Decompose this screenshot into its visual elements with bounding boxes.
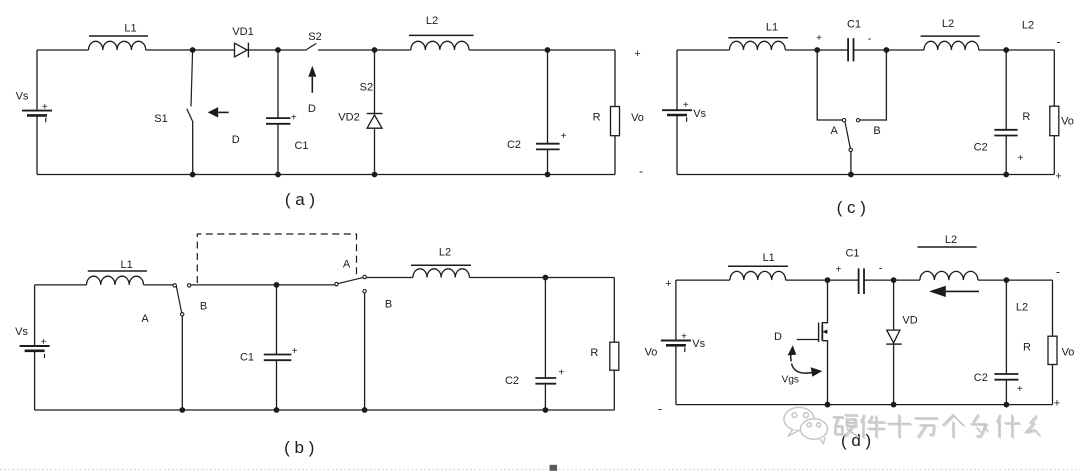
watermark char 7 (1026, 416, 1040, 436)
svg-text:C1: C1 (240, 351, 254, 363)
MOSFET Q (d): gate bar (818, 323, 820, 343)
svg-text:L2: L2 (942, 18, 954, 30)
svg-text:R: R (1022, 111, 1030, 123)
arrow D (a, S2 direction) (311, 77, 313, 93)
svg-text:+: + (1055, 171, 1061, 183)
diode VD2 (a) with label S2 (374, 50, 376, 114)
svg-text:C2: C2 (505, 375, 519, 387)
svg-text:VD2: VD2 (338, 111, 359, 123)
svg-text:-: - (1056, 265, 1060, 279)
switch blade and pole (c) (845, 122, 850, 148)
inductor L2 (d) (920, 271, 978, 280)
svg-text:A: A (831, 125, 839, 137)
node (a) top of C2 (545, 47, 551, 53)
wire: (c) bottom rail (677, 174, 1054, 176)
inductor L2 (c) (924, 41, 979, 50)
inductor L2 (a) (411, 41, 469, 50)
throw B contact (b) right switch with leg (363, 290, 366, 293)
arrow up (d gate annotation) (791, 350, 792, 362)
capacitor C2 (c) (1005, 50, 1007, 130)
svg-text:Vgs: Vgs (782, 375, 799, 386)
svg-text:R: R (593, 112, 601, 124)
svg-text:B: B (385, 299, 392, 311)
wire: (a) left leg (36, 50, 38, 111)
battery Vs (c) (662, 109, 692, 111)
MOSFET Q (d): drain lead (822, 280, 827, 324)
wire: (b) top rail right of switch2 (366, 277, 413, 279)
arrow D (a, S1 direction) (218, 111, 229, 113)
dashed link between switches (b) (197, 234, 356, 283)
wire: (c) left leg (676, 50, 678, 110)
bottom dotted divider (0, 469, 1080, 471)
resistor R (b) (610, 342, 619, 370)
svg-text:S1: S1 (154, 113, 167, 125)
capacitor C2 (b) (544, 278, 546, 379)
svg-text:C2: C2 (507, 139, 521, 151)
svg-text:-: - (1057, 35, 1061, 49)
node (a) bottom junctions (190, 172, 196, 178)
wire: (a) bottom rail (37, 174, 615, 176)
svg-text:L1: L1 (766, 22, 778, 34)
svg-text:D: D (232, 134, 240, 146)
node (c) left of C1 (814, 47, 820, 53)
wire: (b) bottom rail (35, 409, 615, 411)
wire: (a) top rail segments (37, 49, 89, 51)
watermark char 0 (833, 415, 858, 437)
svg-text:Vo: Vo (631, 112, 644, 124)
svg-text:L1: L1 (120, 259, 132, 271)
svg-text:+: + (42, 102, 48, 113)
battery Vs (b) (20, 345, 50, 347)
svg-text:( d ): ( d ) (841, 431, 871, 450)
node (d) bottom junctions (825, 402, 831, 408)
svg-text:A: A (343, 259, 351, 271)
svg-text:+: + (1054, 398, 1060, 410)
svg-text:-: - (658, 402, 662, 416)
svg-text:+: + (683, 100, 689, 111)
wire: (a) right leg (614, 50, 616, 107)
wire: (b) top rail B-to-C1 (191, 284, 277, 286)
svg-text:C2: C2 (974, 372, 988, 384)
wire: (c) right leg (1053, 50, 1055, 106)
capacitor C1 (d) (858, 268, 860, 294)
node (d) drain junction (825, 277, 831, 283)
svg-text:-: - (868, 33, 872, 45)
capacitor C1 (c) (847, 38, 849, 61)
inductor L2 (b) (413, 269, 470, 278)
svg-text:+: + (665, 278, 671, 290)
wire: (b) top rail left of switch1 (35, 284, 87, 286)
svg-text:Vs: Vs (693, 108, 706, 120)
svg-text:Vo: Vo (1061, 116, 1074, 128)
resistor R (c) (1050, 106, 1059, 136)
svg-text:+: + (816, 33, 822, 44)
svg-text:+: + (561, 131, 567, 142)
svg-text:-: - (639, 164, 643, 178)
svg-text:B: B (200, 301, 207, 313)
slider handle square (550, 465, 558, 471)
node (b) bottom junctions (179, 407, 185, 413)
MOSFET Q (d): source lead (822, 341, 827, 405)
switch 2 (b): pole and blade to A (338, 278, 363, 284)
svg-text:B: B (873, 125, 880, 137)
diode VD (d) (893, 280, 895, 330)
arrow current direction (d) (946, 290, 979, 292)
node (d) top of C2 (1004, 277, 1010, 283)
svg-text:Vo: Vo (1062, 347, 1075, 359)
svg-text:A: A (141, 313, 149, 325)
inductor L1 (d) (730, 271, 786, 280)
svg-text:-: - (879, 262, 883, 274)
switch bracket (c): right arm to contact B (860, 50, 887, 120)
wire: (c) top rail segments (677, 49, 730, 51)
svg-text:L2: L2 (945, 234, 957, 246)
switch S2 (a) (307, 43, 317, 49)
watermark logo (chat bubbles) (784, 407, 828, 443)
watermark text 硬件十万个为什么 (833, 415, 1040, 438)
svg-text:+: + (291, 112, 297, 123)
battery Vs (d) (661, 340, 691, 342)
svg-text:L2: L2 (1022, 20, 1034, 32)
capacitor C1 (a) (277, 50, 279, 118)
MOSFET Q (d): channel bar (821, 325, 823, 341)
svg-text:+: + (41, 337, 47, 348)
svg-text:L2: L2 (1016, 302, 1028, 314)
inductor L1 (c) (730, 41, 786, 50)
node (a) top of S1 (190, 47, 196, 53)
node (c) right of C1 (884, 47, 890, 53)
circuit (d) (658, 234, 1074, 450)
watermark char 2 (888, 415, 911, 438)
svg-text:L2: L2 (439, 246, 451, 258)
MOSFET Q (d): gate lead (797, 339, 819, 341)
node (a) top of C1 (275, 47, 281, 53)
capacitor C1 (b) (276, 285, 278, 355)
svg-text:+: + (1017, 384, 1023, 395)
svg-text:+: + (634, 48, 640, 60)
battery Vs (a) (22, 110, 52, 112)
capacitor C2 (d) (1005, 280, 1007, 374)
inductor L1 (a) (89, 41, 146, 50)
svg-text:R: R (1023, 342, 1031, 354)
svg-text:C2: C2 (974, 142, 988, 154)
svg-text:C1: C1 (294, 140, 308, 152)
svg-text:+: + (558, 368, 564, 379)
MOSFET Q (d): body arrow (824, 331, 828, 333)
wire: (d) bottom rail (676, 404, 1053, 406)
resistor R (a) (611, 107, 620, 136)
switch S1 (a) (191, 50, 193, 107)
wire: (b) left leg (34, 285, 36, 346)
svg-text:L1: L1 (124, 23, 136, 35)
svg-text:L2: L2 (426, 15, 438, 27)
node (b) top of C2 (543, 275, 549, 281)
svg-text:+: + (835, 265, 841, 276)
watermark char 4 (943, 415, 964, 438)
svg-text:S2: S2 (308, 31, 321, 43)
node (a) top of VD2 (372, 47, 378, 53)
switch 1 (b): pole and blade to A (176, 286, 181, 313)
svg-text:+: + (1018, 153, 1024, 164)
watermark char 5 (971, 415, 988, 438)
svg-text:D: D (308, 103, 316, 115)
svg-text:( b ): ( b ) (284, 438, 314, 457)
svg-text:Vs: Vs (15, 326, 28, 338)
svg-text:Vo: Vo (645, 347, 658, 359)
watermark char 1 (861, 415, 885, 438)
svg-text:S2: S2 (360, 82, 373, 94)
svg-text:L1: L1 (763, 252, 775, 264)
svg-text:Vs: Vs (16, 91, 29, 103)
wire: (d) top rail segments (676, 279, 730, 281)
svg-text:+: + (292, 346, 298, 357)
svg-text:VD1: VD1 (232, 26, 253, 38)
watermark char 3 (915, 418, 938, 438)
node (c) bottom junctions (848, 172, 854, 178)
circuit (c) (662, 18, 1074, 217)
circuit (b) (15, 234, 657, 457)
wire: (d) right leg (1052, 280, 1054, 336)
capacitor C2 (a) (547, 50, 549, 144)
svg-text:R: R (590, 347, 598, 359)
curved arrow Vgs (d) (792, 364, 813, 374)
svg-text:( c ): ( c ) (837, 198, 866, 217)
resistor R (d) (1048, 336, 1057, 364)
wire: (d) left leg (675, 280, 677, 340)
switch bracket (c): left arm to contact A (817, 50, 842, 120)
svg-text:C1: C1 (845, 248, 859, 260)
svg-text:D: D (774, 331, 782, 343)
throw B contact (b) left switch (188, 284, 191, 287)
circuit (a) (16, 15, 644, 209)
svg-text:( a ): ( a ) (285, 190, 315, 209)
watermark char 6 (997, 415, 1020, 438)
inductor L1 (b) (87, 276, 144, 285)
diode VD1 (a) (235, 43, 248, 57)
node (d) top of VD (891, 277, 897, 283)
node (c) top of C2 (1003, 47, 1009, 53)
wire: (b) right leg (613, 278, 615, 343)
svg-text:VD: VD (902, 315, 917, 327)
svg-text:+: + (681, 332, 687, 343)
svg-text:C1: C1 (847, 19, 861, 31)
node (b) top of C1 (274, 282, 280, 288)
svg-text:Vs: Vs (692, 338, 705, 350)
